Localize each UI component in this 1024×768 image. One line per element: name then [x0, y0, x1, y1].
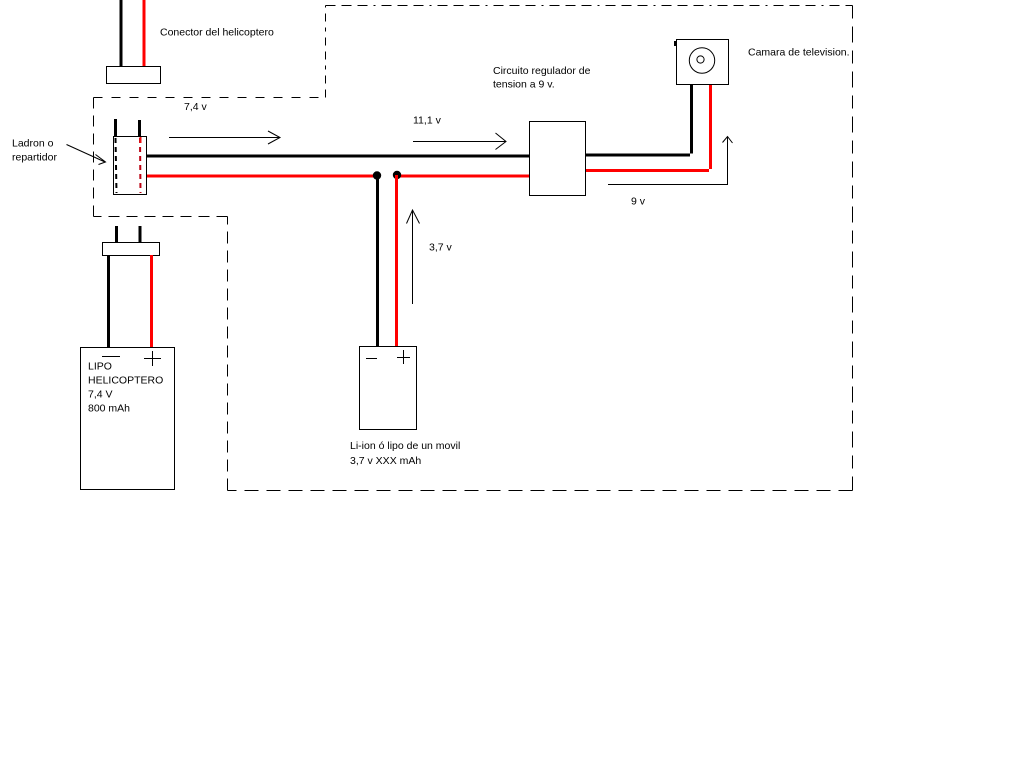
regulator box	[530, 122, 586, 196]
svg-text:Camara de television.: Camara de television.	[748, 47, 850, 59]
li-ion minus sign	[366, 358, 377, 360]
lipo battery box	[81, 348, 175, 490]
li-ion battery box	[360, 347, 417, 430]
camera body	[677, 40, 729, 85]
junction dot 2	[393, 171, 401, 179]
camera lens inner circle	[697, 56, 704, 63]
conector del helicoptero: red wire	[143, 0, 146, 67]
li-ion plus sign	[397, 350, 410, 364]
camera lens outer circle	[689, 48, 714, 73]
lipo plus sign	[144, 351, 161, 366]
black wire regulator->camera	[586, 84, 693, 157]
label arrow to ladron	[67, 145, 106, 165]
junction dot 1	[373, 171, 381, 179]
svg-text:9 v: 9 v	[631, 196, 646, 208]
red wire ladron->junction1	[147, 175, 378, 178]
lipo connector pin stubs	[115, 226, 118, 242]
arrow 9 v	[608, 137, 733, 185]
svg-text:11,1 v: 11,1 v	[413, 115, 442, 127]
ladron o repartidor: pin stubs	[114, 119, 117, 136]
arrow 7,4 v	[169, 131, 280, 144]
black wire junction1 -> li-ion battery	[376, 175, 379, 347]
svg-text:LIPO: LIPO	[88, 361, 112, 373]
svg-text:repartidor: repartidor	[12, 152, 57, 164]
main black wire ladron->regulator	[147, 155, 529, 158]
red wire junction2->regulator	[396, 175, 529, 178]
ladron black dashed contact	[116, 138, 117, 193]
ladron o repartidor body	[114, 137, 147, 195]
lipo connector body	[103, 243, 160, 256]
svg-text:7,4 v: 7,4 v	[184, 101, 208, 113]
svg-text:7,4 V: 7,4 V	[88, 389, 113, 401]
red wire regulator->camera	[586, 84, 712, 172]
lipo red wire	[150, 255, 153, 347]
lipo minus sign	[102, 356, 120, 358]
svg-text:HELICOPTERO: HELICOPTERO	[88, 375, 163, 387]
svg-text:Conector del helicoptero: Conector del helicoptero	[160, 27, 274, 39]
red wire junction2 -> li-ion battery	[395, 175, 398, 347]
lipo black wire	[107, 255, 110, 347]
svg-text:3,7 v: 3,7 v	[429, 242, 453, 254]
svg-text:3,7 v XXX mAh: 3,7 v XXX mAh	[350, 455, 421, 467]
ladron red dashed contact	[139, 138, 142, 193]
svg-text:Li-ion ó lipo de un movil: Li-ion ó lipo de un movil	[350, 440, 460, 452]
conector del helicoptero: black wire	[120, 0, 123, 67]
arrow 11,1 v	[413, 133, 506, 150]
svg-text:Ladron o: Ladron o	[12, 138, 54, 150]
svg-text:800 mAh: 800 mAh	[88, 403, 130, 415]
svg-text:tension a 9 v.: tension a 9 v.	[493, 79, 555, 91]
svg-text:Circuito regulador de: Circuito regulador de	[493, 65, 591, 77]
conector del helicoptero body	[107, 67, 161, 84]
arrow 3,7 v	[407, 210, 420, 304]
camera stray tick	[674, 41, 676, 46]
dashed enclosure big box	[94, 6, 853, 491]
